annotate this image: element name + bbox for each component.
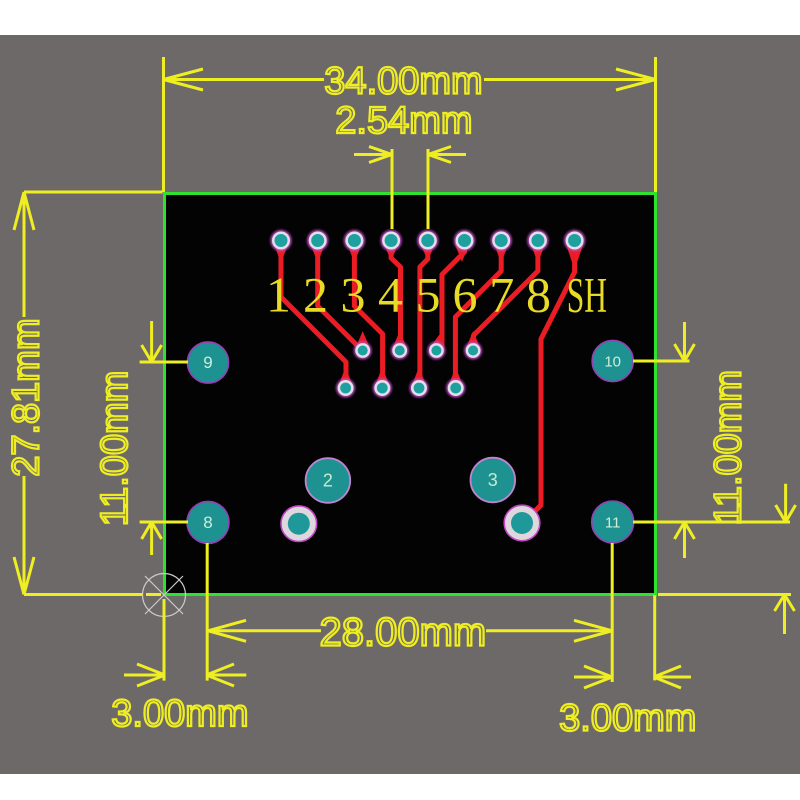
yellow dimension texts (5, 61, 749, 740)
dim 3.00mm BR right-pointing arrow (574, 666, 612, 688)
dim 11.00mm left upper arrow (down) (142, 321, 162, 362)
wire pad4 to upper-mid pad UM2 (391, 250, 400, 351)
right board-bottom leader line (658, 593, 791, 596)
bottom middle pad row (4 pads) (336, 378, 465, 397)
pad B3 (409, 378, 428, 397)
pad 6 (top row) (454, 230, 475, 251)
teardrop SH pad (wider) (566, 243, 584, 270)
svg-text:28.00mm: 28.00mm (320, 610, 487, 654)
wire pad3 to bottom-mid pad B2 (354, 250, 382, 388)
wire pad5 to bottom-mid pad B3 (420, 250, 428, 388)
dim 2.54mm arrow right (pointing left) (428, 147, 466, 163)
shield via pad right (504, 505, 540, 541)
dim 2.54mm arrow left (pointing right) (354, 147, 392, 163)
wire pad7 to bottom-mid pad B4 (455, 250, 501, 388)
pad UM1 (354, 342, 372, 360)
pin numerals 1-8 and SH (266, 267, 607, 324)
dim 27.81mm dimension line (23, 192, 26, 595)
svg-text:2: 2 (303, 267, 328, 323)
svg-text:3: 3 (341, 267, 366, 323)
mounting pad 10 (592, 340, 633, 381)
pad 3 (top row) (344, 230, 365, 251)
svg-text:8: 8 (203, 513, 212, 532)
dim 11.00mm left pad9 leader line (140, 361, 188, 364)
svg-text:4: 4 (378, 267, 403, 323)
PCB board outline (green) with black substrate (165, 194, 656, 595)
svg-text:8: 8 (526, 267, 551, 323)
svg-text:7: 7 (489, 267, 514, 323)
right edge dim up arrow (775, 595, 795, 635)
svg-text:SH: SH (567, 268, 607, 323)
right edge dim down arrow (776, 484, 796, 522)
dim 28.00mm extension line left (206, 543, 209, 681)
dim 3.00mm BL extension at board edge (163, 599, 166, 681)
big pad 3 (471, 458, 516, 503)
dim 11.00mm left lower arrow (up) (142, 522, 162, 555)
wire pad8 to upper-mid pad UM4 (473, 250, 538, 351)
svg-text:11.00mm: 11.00mm (707, 370, 749, 526)
svg-text:2.54mm: 2.54mm (335, 100, 472, 142)
svg-text:3.00mm: 3.00mm (559, 698, 696, 740)
yellow dimension drawings (14, 57, 796, 688)
svg-text:11: 11 (605, 515, 621, 532)
dim 2.54mm extension line at pad5 (427, 149, 430, 229)
red traces group (281, 248, 575, 522)
dim 34.00mm arrow left (164, 69, 204, 90)
svg-text:9: 9 (203, 353, 212, 372)
dim 28.00mm arrow right (574, 620, 612, 641)
big pad 2 (306, 458, 351, 503)
teardrops above bottom-mid pads (338, 367, 353, 387)
dim 34.00mm extension line left (162, 57, 165, 192)
wire SH pad to shield via (524, 248, 575, 522)
pad B2 (373, 378, 392, 397)
mounting pad 11 (592, 501, 634, 543)
svg-text:1: 1 (266, 267, 291, 323)
dim 3.00mm BR extension at board edge (653, 595, 656, 680)
top pad row (9 pads) (270, 230, 585, 251)
pad UM4 (464, 342, 482, 360)
origin marker (143, 574, 186, 617)
dim 28.00mm dimension line (208, 629, 612, 632)
dim 2.54mm extension line at pad4 (391, 149, 394, 229)
pad B4 (446, 378, 465, 397)
svg-text:3.00mm: 3.00mm (111, 693, 248, 735)
pad 4 (top row) (380, 230, 401, 251)
mounting pad 8 (187, 501, 229, 543)
dim 3.00mm BR left-pointing arrow (654, 666, 691, 688)
pad 1 (270, 230, 291, 251)
dim 27.81mm extension line bottom (24, 593, 161, 596)
dim 11.00mm left pad8 leader line (140, 521, 188, 524)
wire pad1 to bottom-mid pad B1 (281, 250, 346, 388)
pad UM3 (427, 342, 445, 360)
dim 3.00mm BL right-pointing arrow (124, 664, 165, 686)
dim 34.00mm arrow right (616, 69, 656, 90)
svg-text:10: 10 (604, 354, 621, 371)
dim 11.00mm right pad10 leader line (633, 360, 690, 363)
dim 27.81mm arrow bottom (14, 557, 34, 595)
dim 11.00mm right upper arrow (down) (675, 322, 695, 361)
dim 27.81mm extension line top (24, 191, 163, 194)
pad 5 (top row) (417, 230, 438, 251)
svg-text:6: 6 (453, 267, 478, 323)
dim 11.00mm right pad11 leader line (633, 521, 790, 524)
pad 8 (top row) (527, 230, 548, 251)
pad SH (top row) (564, 230, 585, 251)
upper middle pad row (4 pads) (354, 342, 482, 360)
teardrops above upper-mid pads (355, 331, 370, 349)
dim 11.00mm right lower arrow (up) (675, 522, 695, 558)
svg-text:5: 5 (416, 267, 441, 323)
svg-text:2: 2 (323, 471, 333, 491)
pad UM2 (391, 342, 409, 360)
dim 28.00mm extension line right (611, 543, 614, 682)
dim 3.00mm BL left-pointing arrow (206, 664, 246, 686)
shield via pad left (281, 506, 317, 542)
pad B1 (336, 378, 355, 397)
wire pad6 to upper-mid pad UM3 (442, 248, 465, 351)
dim 27.81mm arrow top (14, 192, 34, 230)
svg-text:27.81mm: 27.81mm (5, 318, 47, 476)
dim 34.00mm dimension line (164, 78, 656, 81)
pad 2 (top row) (307, 230, 328, 251)
svg-text:3: 3 (488, 470, 498, 490)
dim 34.00mm extension line right (654, 57, 657, 192)
pad 7 (top row) (491, 230, 512, 251)
wire pad2 to upper-mid pad UM1 (318, 250, 363, 351)
dim 28.00mm arrow left (208, 620, 246, 641)
svg-text:11.00mm: 11.00mm (94, 371, 136, 527)
mounting pad 9 (187, 342, 228, 383)
svg-text:34.00mm: 34.00mm (324, 61, 482, 103)
teardrops at top pads (274, 243, 584, 387)
